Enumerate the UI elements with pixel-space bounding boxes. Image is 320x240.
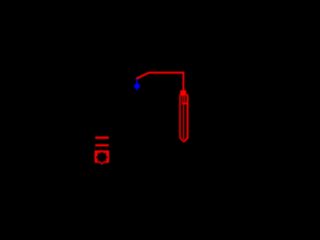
wire W1 diagonal segment — [136, 73, 149, 79]
wire W3 vertical segment — [183, 72, 185, 91]
node N1 blue octagram marker — [134, 82, 140, 90]
igniter E1 bridge loop right lead — [184, 95, 185, 102]
wire W2 horizontal segment — [149, 72, 185, 74]
pad P1 square — [95, 150, 110, 162]
capacitor C1 bottom plate — [95, 144, 109, 146]
igniter E1 head block full-width base row — [180, 94, 189, 95]
igniter E1 crossbar — [182, 103, 188, 105]
igniter E1 bridge loop left lead — [182, 95, 183, 102]
igniter E1 center electrode line — [183, 104, 184, 139]
pad P1 octagram hole — [95, 151, 109, 165]
igniter E1 tube right wall — [184, 95, 188, 142]
node N1 blue stub wire — [136, 79, 137, 84]
igniter E1 head block — [180, 90, 186, 95]
capacitor C1 top plate — [95, 137, 109, 139]
igniter E1 tube left wall — [180, 95, 184, 142]
